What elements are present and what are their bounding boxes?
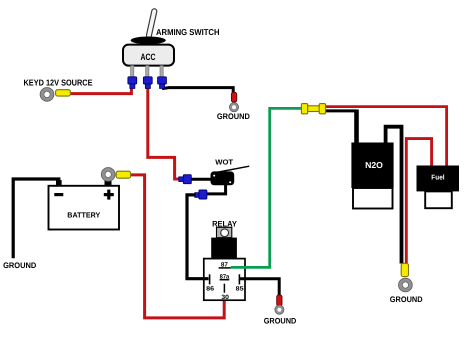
svg-text:KEYD 12V SOURCE: KEYD 12V SOURCE <box>24 78 93 88</box>
svg-text:WOT: WOT <box>215 158 233 167</box>
svg-text:BATTERY: BATTERY <box>67 211 100 220</box>
svg-text:GROUND: GROUND <box>3 261 36 270</box>
svg-text:86: 86 <box>206 285 215 292</box>
svg-text:GROUND: GROUND <box>264 317 297 326</box>
svg-text:GROUND: GROUND <box>217 112 250 121</box>
svg-text:30: 30 <box>221 294 229 301</box>
svg-text:85: 85 <box>236 285 245 292</box>
svg-text:N2O: N2O <box>365 160 383 170</box>
svg-text:Fuel: Fuel <box>431 174 444 182</box>
svg-text:GROUND: GROUND <box>390 295 423 304</box>
svg-text:ARMING SWITCH: ARMING SWITCH <box>156 27 220 37</box>
svg-text:ACC: ACC <box>141 52 156 62</box>
